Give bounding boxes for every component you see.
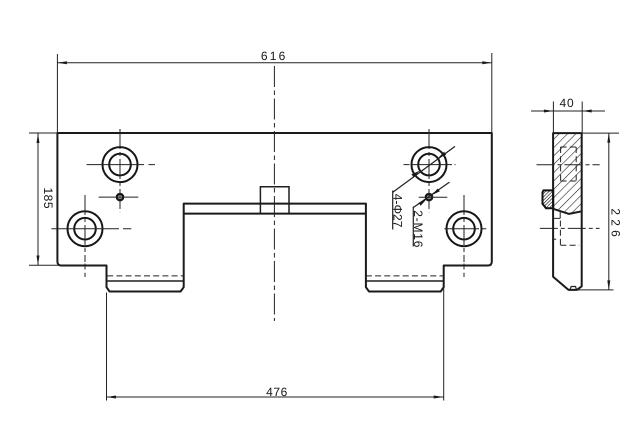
svg-text:185: 185 bbox=[41, 188, 55, 210]
svg-text:476: 476 bbox=[266, 385, 288, 399]
svg-text:226: 226 bbox=[608, 208, 622, 241]
svg-text:4-Φ27: 4-Φ27 bbox=[390, 194, 404, 228]
svg-text:616: 616 bbox=[261, 49, 288, 63]
svg-text:40: 40 bbox=[560, 96, 575, 110]
svg-text:2-M16: 2-M16 bbox=[411, 210, 425, 248]
